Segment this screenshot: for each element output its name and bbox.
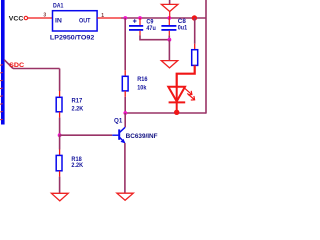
wire base (junction to Q1 base) (60, 134, 113, 136)
svg-text:Q1: Q1 (114, 118, 123, 124)
wire VCC to DA1 pin 3 (red) (28, 17, 53, 19)
LED emission arrow 1 (185, 88, 192, 95)
capacitor C8 plates (161, 26, 176, 30)
resistor R19 body (current limit resistor) (192, 50, 198, 66)
svg-text:C8: C8 (178, 19, 187, 25)
wire rail down to R16 (124, 18, 126, 70)
node junction rail / LED resistor (red dot) (192, 15, 197, 20)
resistor R18 body (56, 155, 62, 170)
wire R17 to junction (59, 118, 61, 136)
pin lead C8 top (red) (168, 18, 170, 25)
capacitor C9 plates (129, 26, 143, 30)
node junction caps bottom (168, 38, 172, 42)
wire (bus entry stubs on left edge) (0, 65, 3, 120)
pin lead C9 bottom (red) (139, 31, 141, 36)
LED emission arrow 2 (187, 93, 194, 100)
svg-text:DA1: DA1 (53, 2, 64, 9)
pin lead R18 top (red) (59, 150, 61, 156)
pin lead R17 bottom (red) (59, 112, 61, 118)
svg-text:VCC: VCC (9, 16, 24, 23)
svg-text:BC639/INF: BC639/INF (126, 133, 158, 140)
LED anode lead through body (176, 87, 178, 111)
wire junction to R18 (59, 135, 61, 149)
LED cathode bar (169, 101, 186, 103)
pin lead resistor top (red) (194, 44, 196, 50)
node junction C8 top (167, 16, 171, 20)
pin lead C9 top (red) (139, 18, 141, 25)
wire C8 bottom to junction (168, 35, 170, 39)
svg-text:SDC: SDC (9, 62, 25, 69)
wire rail down to resistor (194, 18, 196, 44)
transistor Q1 symbol (112, 127, 125, 143)
node junction rail/R16 (123, 16, 127, 20)
wire SDC down to R17 (59, 69, 61, 92)
svg-text:LP2950/TO92: LP2950/TO92 (50, 35, 95, 42)
wire SDC bus entry diagonal (4, 60, 13, 69)
node junction bottom rail / collector (123, 111, 127, 115)
ground (below R18) (51, 193, 68, 201)
wire collector (rail down to Q1) (124, 113, 126, 127)
LED VD1 triangle (168, 87, 185, 102)
svg-text:0u1: 0u1 (178, 25, 188, 31)
node junction LED cathode / bottom rail (red dot) (174, 110, 179, 115)
wire bottom rail (125, 112, 206, 114)
svg-text:2.2K: 2.2K (72, 106, 84, 112)
wire SDC horizontal (13, 68, 60, 70)
wire top ground to rail (red) (169, 12, 171, 19)
ground (below capacitors) (161, 61, 177, 68)
node junction C9 top (138, 16, 142, 20)
svg-text:R16: R16 (137, 77, 148, 83)
ground (top, above rail) (161, 4, 178, 11)
wire emitter to ground (124, 143, 126, 193)
pin lead R17 top (red) (59, 91, 61, 97)
wire LED net (thick red, resistor to LED anode) (177, 65, 195, 87)
svg-text:10k: 10k (137, 85, 147, 91)
ground (below Q1 emitter) (117, 193, 133, 200)
transistor Q1 emitter arrowhead (121, 139, 126, 144)
svg-text:2.2K: 2.2K (71, 163, 83, 169)
node junction base divider (58, 133, 62, 137)
resistor R17 body (56, 97, 62, 112)
port VCC (open circle terminal) (24, 16, 27, 19)
capacitor C9 plus sign (133, 19, 137, 23)
wire junction to ground (168, 40, 170, 61)
pin lead R16 top (red) (124, 70, 126, 76)
wire R16 to bottom rail (124, 97, 126, 113)
wire DA1 OUT stub (red) (97, 17, 121, 19)
pin lead R18 bottom (red) (59, 171, 61, 177)
svg-text:47u: 47u (146, 26, 156, 32)
wire right edge vertical (205, 0, 207, 114)
wire stub above top ground (169, 0, 171, 4)
svg-text:3: 3 (43, 12, 46, 18)
pin lead R16 bottom (red) (124, 91, 126, 97)
svg-text:OUT: OUT (79, 17, 91, 24)
wire R18 to ground (59, 177, 61, 194)
regulator DA1 body (53, 11, 98, 31)
resistor R16 body (122, 76, 128, 91)
svg-text:R17: R17 (72, 99, 83, 105)
bus (vertical blue bus at left edge) (1, 0, 5, 125)
wire C9 bottom to junction (140, 35, 169, 39)
wire top rail (maroon) (121, 17, 206, 19)
pin lead C8 bottom (red) (168, 31, 170, 36)
svg-text:IN: IN (55, 17, 62, 24)
svg-text:C9: C9 (146, 19, 154, 25)
